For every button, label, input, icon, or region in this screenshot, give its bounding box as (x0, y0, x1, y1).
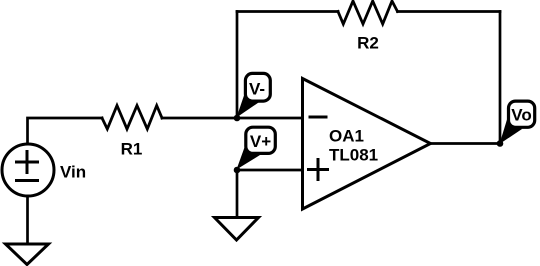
svg-text:V+: V+ (250, 132, 271, 151)
node Vo junction (497, 140, 504, 147)
wire feedback left vertical (236, 12, 239, 119)
node label V+ (237, 127, 276, 169)
wire Vin to ground (26, 196, 29, 244)
svg-text:R1: R1 (121, 140, 143, 159)
svg-text:TL081: TL081 (329, 146, 378, 165)
svg-text:OA1: OA1 (329, 127, 364, 146)
wire R1 to op-amp inverting input (162, 117, 302, 120)
wire V+ node to ground (236, 170, 239, 217)
wire feedback top right (398, 10, 501, 13)
wire feedback top left (237, 10, 338, 13)
node V- junction (234, 115, 241, 122)
svg-text:Vin: Vin (60, 163, 86, 182)
svg-text:R2: R2 (357, 34, 379, 53)
wire feedback right vertical (499, 12, 502, 144)
node V+ junction (234, 167, 241, 174)
wire Vin top lead and input run to R1 (28, 118, 103, 144)
node label Vo (500, 101, 535, 144)
wire op-amp output (431, 142, 501, 145)
resistor R2 (338, 1, 398, 53)
ground at Vin (6, 244, 49, 265)
svg-text:V-: V- (249, 80, 265, 99)
voltage source Vin (2, 144, 86, 196)
op-amp U1 OA1 TL081 (303, 79, 431, 210)
ground at op-amp non-inverting input (215, 218, 259, 241)
wire op-amp non-inverting input (237, 169, 302, 172)
resistor R1 (102, 106, 162, 159)
node label V- (237, 73, 271, 117)
svg-text:Vo: Vo (511, 106, 531, 125)
